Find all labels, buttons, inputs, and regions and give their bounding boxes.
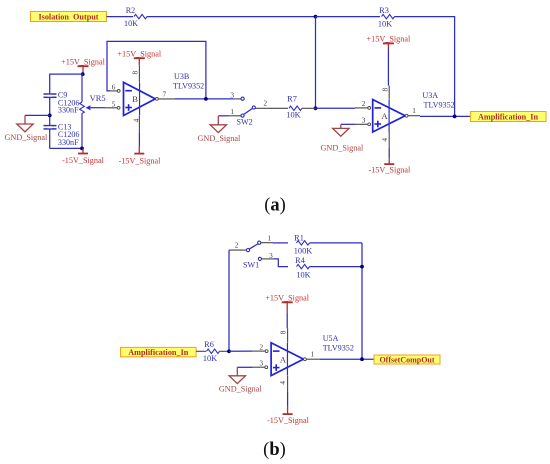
ground GND_Signal (left) [5,115,48,141]
node junction feedback/output [204,97,208,101]
node junction R7/pin2 [314,106,318,110]
op-amp U5A pin 1 stub [304,351,321,361]
power +15V_Signal (U5A) [265,293,309,313]
op-amp U3A pin 4 stub [380,132,389,149]
label SW2 designator [237,118,253,127]
svg-text:R7: R7 [287,94,297,103]
label U3A designator [422,91,454,109]
switch SW2 pin 1 [228,108,244,117]
svg-text:Isolation Output: Isolation Output [38,13,98,22]
svg-text:4: 4 [278,381,287,385]
wire [286,314,288,329]
wire [302,107,355,109]
net label OffsetCompOut [374,355,440,364]
svg-text:R6: R6 [204,340,214,349]
svg-text:3: 3 [230,91,234,99]
svg-text:SW2: SW2 [237,118,253,127]
op-amp U3A pin 8 stub [381,86,390,100]
wire [50,74,83,149]
svg-text:GND_Signal: GND_Signal [219,384,262,393]
switch SW2 pin 3 [230,91,244,100]
op-amp U3A pin 2 stub [355,100,371,109]
resistor R4 [295,256,310,280]
node junction R6/SW1/pin2 [227,349,231,353]
wire [138,132,140,146]
op-amp U5A pin 8 stub [279,328,288,342]
switch SW1 pin 1 [261,235,273,243]
net label Amplification_In (b) [121,347,197,357]
op-amp U3B pin 6 stub [109,83,120,92]
caption (a) [264,195,286,215]
wire [273,242,288,244]
svg-text:4: 4 [131,118,140,122]
svg-text:2: 2 [264,100,268,108]
switch SW1 pin 2 [229,242,250,252]
svg-text:TLV9352: TLV9352 [424,100,455,109]
wire [25,114,50,116]
wire [220,350,230,352]
svg-text:GND_Signal: GND_Signal [321,144,364,153]
svg-text:6: 6 [112,83,116,91]
svg-text:10K: 10K [286,111,300,120]
wire [310,266,363,268]
wire [268,107,288,109]
svg-text:4: 4 [380,138,389,142]
caption (b) [263,440,286,460]
svg-text:Amplification_In: Amplification_In [128,348,188,357]
wire [107,16,134,18]
ground GND_Signal (SW2) [198,116,241,143]
wire [388,148,390,158]
wire [316,16,381,18]
svg-text:VR5: VR5 [90,93,106,103]
op-amp U3A pin 3 stub [355,117,371,126]
svg-text:1: 1 [230,108,234,116]
svg-text:3: 3 [260,360,264,368]
svg-text:8: 8 [279,330,288,334]
net label Amplification_In (a) [470,112,546,122]
op-amp U3B pin 5 stub [105,100,120,109]
wire [229,350,252,352]
wire [387,49,389,86]
wire [196,350,206,352]
wire (U3A output) [420,115,470,117]
svg-text:7: 7 [163,90,167,98]
svg-text:3: 3 [362,117,366,125]
svg-text:+15V_Signal: +15V_Signal [367,35,411,44]
svg-text:OffsetCompOut: OffsetCompOut [379,355,434,364]
power +15V_Signal (U3A) [367,35,411,49]
svg-text:+15V_Signal: +15V_Signal [265,293,309,302]
svg-text:R4: R4 [295,256,306,265]
svg-text:-15V_Signal: -15V_Signal [267,416,310,425]
op-amp U3B pin 8 stub [131,65,140,82]
op-amp U5A pin 2 stub [252,344,268,353]
node junction +15V/C9/VR5 [81,72,85,76]
svg-text:R2: R2 [126,6,135,15]
svg-text:+15V_Signal: +15V_Signal [117,49,161,58]
resistor R2 [124,6,147,28]
svg-text:Amplification_In: Amplification_In [478,113,538,122]
wire (U3B output) [175,98,233,100]
svg-text:1: 1 [311,351,315,359]
svg-text:B: B [132,94,138,104]
svg-text:8: 8 [381,88,390,92]
label SW1 designator [243,261,259,270]
wire (feedback U3B) [107,41,206,99]
op-amp U3B pin 7 stub [156,90,176,100]
svg-text:U3B: U3B [174,72,189,81]
capacitor C13 [44,122,80,147]
svg-text:GND_Signal: GND_Signal [5,133,48,142]
node junction R2/R3 [314,15,318,19]
svg-text:GND_Signal: GND_Signal [198,134,241,143]
svg-text:U3A: U3A [422,91,438,100]
svg-text:2: 2 [362,100,366,108]
resistor R3 [378,6,395,28]
wire [219,115,229,117]
power -15V_Signal (U3A) [368,158,411,174]
svg-text:100K: 100K [294,247,312,256]
wire (U5A output) [320,358,374,360]
node junction output/feedback [453,115,457,119]
svg-text:A: A [280,354,287,364]
op-amp U3A [373,100,406,133]
wire (SW1 to R6 node) [228,250,230,351]
op-amp U5A pin 3 stub [253,360,268,369]
svg-text:TLV9352: TLV9352 [173,81,204,90]
wire [287,392,289,406]
wire [395,16,455,116]
ground GND_Signal (U3A) [321,124,364,152]
op-amp U5A [271,343,303,376]
svg-text:SW1: SW1 [243,261,259,270]
wire [50,147,82,149]
switch SW1 lever [249,241,261,249]
capacitor C9 [44,90,80,114]
wire [147,16,316,18]
net label Isolation_Output [31,12,107,22]
svg-text:10K: 10K [296,271,310,280]
label U3B designator [173,72,204,90]
power +15V_Signal (U3B) [117,49,161,65]
potentiometer VR5 [80,74,106,148]
node junction output/feedback (b) [360,357,364,361]
svg-text:330nF: 330nF [58,106,79,115]
svg-text:10K: 10K [378,19,392,28]
svg-text:5: 5 [112,100,116,108]
resistor R6 [203,340,220,363]
svg-text:330nF: 330nF [58,138,79,147]
ground GND_Signal (U5A) [219,367,262,393]
svg-text:(a): (a) [264,195,286,215]
label U5A designator [323,334,354,353]
svg-text:8: 8 [131,70,140,74]
op-amp U3A pin 1 stub [405,107,420,117]
svg-text:TLV9352: TLV9352 [323,344,354,353]
svg-text:-15V_Signal: -15V_Signal [119,156,162,165]
resistor R1 [294,234,312,256]
node junction VR5/-15V [80,147,84,151]
svg-text:10K: 10K [203,354,217,363]
svg-text:10K: 10K [124,19,138,28]
power -15V_Signal (U5A) [267,406,310,426]
svg-text:(b): (b) [263,440,286,460]
switch SW1 pin 3 [258,252,273,261]
svg-text:1: 1 [412,107,416,115]
svg-text:2: 2 [260,344,264,352]
power -15V_Signal (U3B) [119,146,162,165]
node junction R1/R4 [360,265,364,269]
svg-text:1: 1 [268,235,272,243]
svg-text:R1: R1 [294,234,304,243]
svg-text:R3: R3 [379,6,389,15]
svg-text:+15V_Signal: +15V_Signal [61,57,105,66]
op-amp U5A pin 4 stub [278,376,288,392]
svg-text:2: 2 [235,242,239,250]
wire [237,366,253,368]
svg-text:3: 3 [269,252,273,260]
power +15V_Signal (left) [61,57,105,74]
svg-text:-15V_Signal: -15V_Signal [62,156,105,165]
wire [315,17,317,109]
node junction GND/caps [48,114,52,118]
op-amp U3B [124,82,156,115]
svg-text:U5A: U5A [323,334,339,343]
switch SW2 lever [244,106,256,115]
svg-text:A: A [382,111,389,121]
power -15V_Signal (left) [62,148,105,165]
wire [310,243,363,359]
op-amp U3B pin 4 stub [131,116,140,133]
wire [273,259,288,267]
switch SW2 pin 2 [255,100,268,109]
svg-text:-15V_Signal: -15V_Signal [368,165,411,174]
wire [341,123,355,125]
resistor R7 [286,94,302,119]
